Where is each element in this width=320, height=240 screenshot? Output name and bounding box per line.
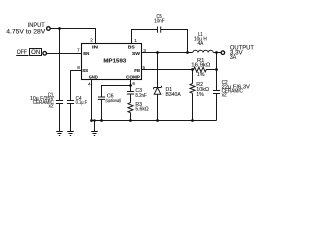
resistor R3 <box>128 103 133 113</box>
node rail C6 <box>100 119 103 122</box>
svg-text:3A: 3A <box>230 55 236 61</box>
svg-text:FB: FB <box>134 68 140 74</box>
svg-text:4: 4 <box>88 82 91 87</box>
node SW D1 <box>156 51 159 54</box>
svg-text:16.9kΩ: 16.9kΩ <box>191 62 210 68</box>
OFF underline <box>16 55 28 57</box>
svg-text:COMP: COMP <box>126 74 141 80</box>
capacitor C2 <box>213 90 220 92</box>
wire FB <box>142 69 193 71</box>
switch ON box <box>30 49 42 56</box>
svg-text:SS: SS <box>82 68 89 74</box>
inductor L1 <box>193 50 213 52</box>
svg-text:5.6kΩ: 5.6kΩ <box>135 106 148 112</box>
svg-text:ON: ON <box>31 50 40 56</box>
node rail GND <box>90 119 93 122</box>
node rail D1 <box>156 119 159 122</box>
svg-text:1: 1 <box>134 38 137 43</box>
svg-text:5: 5 <box>143 65 146 70</box>
svg-text:BS: BS <box>128 44 136 50</box>
ground C1 <box>56 131 63 133</box>
ground main <box>91 131 98 133</box>
node COMP <box>129 84 132 87</box>
svg-text:8: 8 <box>77 65 80 70</box>
svg-text:SW: SW <box>132 51 140 57</box>
svg-text:1%: 1% <box>196 92 204 98</box>
wire C1 vertical <box>59 29 61 101</box>
wire to output <box>213 52 221 54</box>
capacitor C4 <box>67 100 74 102</box>
capacitor C3 <box>127 91 134 93</box>
capacitor C5 <box>157 27 159 33</box>
svg-text:7: 7 <box>77 48 80 53</box>
wire D1 vertical <box>157 53 159 88</box>
svg-text:OFF: OFF <box>17 50 28 56</box>
ground C4 <box>67 131 74 133</box>
node input C1 tap <box>58 27 61 30</box>
capacitor C6 <box>98 96 105 98</box>
wire bottom rail <box>92 120 217 122</box>
svg-text:x2: x2 <box>222 92 227 98</box>
wire COMP <box>130 80 132 92</box>
svg-text:INPUT: INPUT <box>28 23 45 29</box>
resistor R1 <box>193 67 217 72</box>
node SW C5 <box>186 51 189 54</box>
wire C6 branch <box>102 86 131 98</box>
wire output node vertical <box>216 53 218 91</box>
svg-text:8.2nF: 8.2nF <box>135 93 146 99</box>
resistor R2 <box>192 70 194 84</box>
node FB R2 <box>191 68 194 71</box>
svg-text:4.75V to 28V: 4.75V to 28V <box>6 29 45 35</box>
node rail R3 <box>129 119 132 122</box>
wire EN <box>47 53 82 55</box>
wire GND pin <box>91 80 93 121</box>
wire SW <box>142 52 193 54</box>
terminal input <box>47 27 51 31</box>
svg-text:B340A: B340A <box>166 92 182 98</box>
op-amp U1 MP1593 box <box>82 44 142 80</box>
svg-text:1%: 1% <box>197 72 205 78</box>
diode D1 schottky <box>154 88 161 95</box>
svg-text:MP1593: MP1593 <box>103 59 126 65</box>
svg-text:IN: IN <box>92 45 99 51</box>
svg-text:(optional): (optional) <box>106 98 122 104</box>
svg-text:0.1µ F: 0.1µ F <box>76 100 88 106</box>
svg-text:4A: 4A <box>198 41 204 47</box>
node R1 right <box>215 68 218 71</box>
terminal output <box>221 51 225 55</box>
terminal on/off <box>43 52 47 56</box>
svg-text:6: 6 <box>132 81 135 86</box>
wire BS to C5 <box>132 30 158 44</box>
node output divider <box>215 51 218 54</box>
wire SS to C4 <box>71 71 82 101</box>
svg-text:GND: GND <box>89 74 98 80</box>
svg-text:3: 3 <box>143 48 146 53</box>
svg-text:EN: EN <box>83 51 90 57</box>
node rail R2 <box>191 119 194 122</box>
svg-text:2: 2 <box>90 38 93 43</box>
wire input top <box>50 29 95 44</box>
svg-text:x2: x2 <box>49 104 54 110</box>
svg-text:10nF: 10nF <box>154 19 164 25</box>
capacitor C1 <box>56 100 63 102</box>
